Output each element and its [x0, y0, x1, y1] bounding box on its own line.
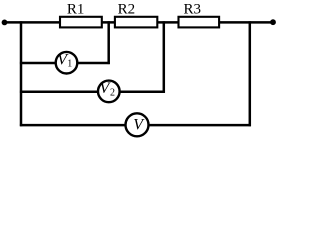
svg-text:R2: R2: [118, 2, 136, 18]
svg-text:R3: R3: [183, 2, 201, 18]
svg-text:1: 1: [67, 59, 72, 70]
svg-text:2: 2: [110, 87, 115, 98]
svg-text:R1: R1: [67, 2, 85, 18]
